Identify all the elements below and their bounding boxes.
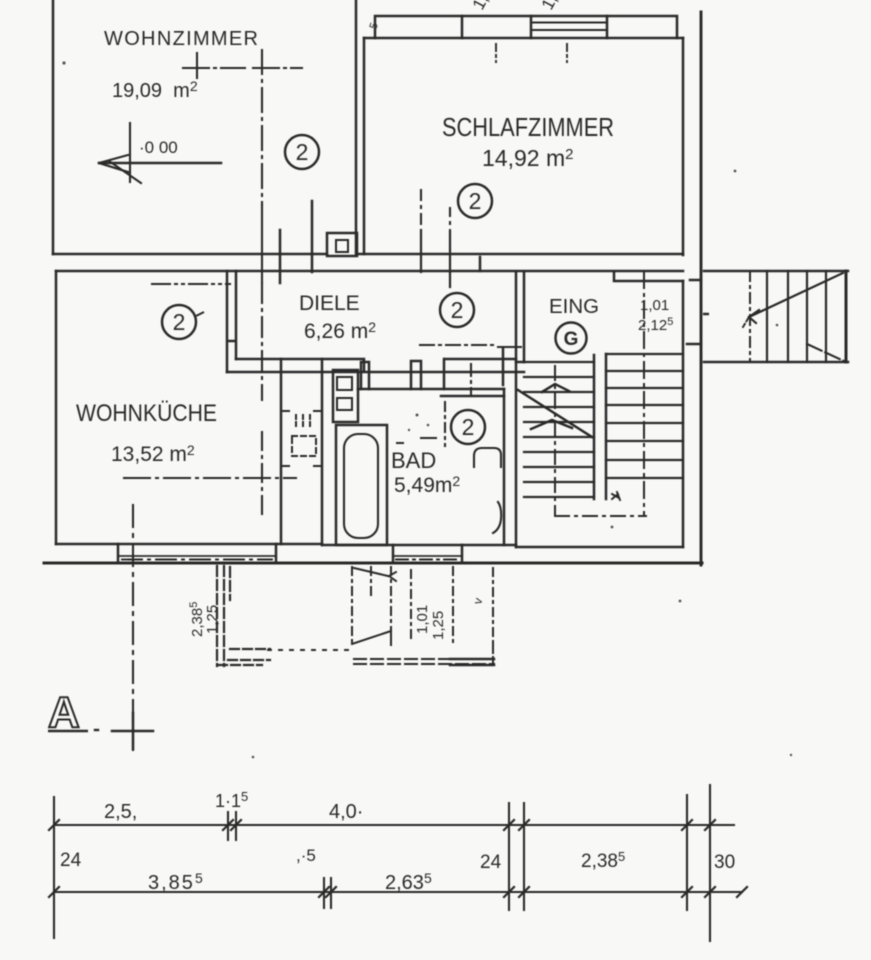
centerline kitchen window xyxy=(122,559,272,561)
wall: building outer right xyxy=(700,12,703,565)
entrance door threshold xyxy=(614,272,683,281)
wall: kitchen left outer xyxy=(55,271,58,544)
stair break line xyxy=(518,390,592,437)
svg-text:WOHNZIMMER: WOHNZIMMER xyxy=(104,28,258,50)
dimension extension verticals xyxy=(54,785,710,941)
balcony bottom right heavy xyxy=(450,659,494,665)
balcony bottom-left corner dashes xyxy=(218,649,270,665)
stair up-arrows xyxy=(542,384,569,392)
speckles xyxy=(62,61,792,758)
svg-text:30: 30 xyxy=(714,852,735,873)
stair landing dashed outline xyxy=(555,515,646,517)
svg-text:G: G xyxy=(564,329,579,350)
svg-text:BAD: BAD xyxy=(391,448,436,473)
wall: bedroom top xyxy=(364,37,683,40)
dimension line lower xyxy=(54,891,742,893)
kitchen sink dashed xyxy=(296,415,310,428)
svg-text:2: 2 xyxy=(451,297,464,323)
svg-text:13,52 m2: 13,52 m2 xyxy=(111,442,195,466)
svg-text:6,26 m2: 6,26 m2 xyxy=(304,319,376,343)
landing mark xyxy=(612,492,620,500)
svg-text:2: 2 xyxy=(173,309,186,335)
wall: kitchen right / fixture strip xyxy=(281,359,322,545)
external stair top right: outline xyxy=(704,271,848,362)
bath window jambs xyxy=(393,545,462,563)
wall: bottom inner faces xyxy=(56,544,683,547)
mark near external stair xyxy=(703,313,709,316)
svg-text:1,25: 1,25 xyxy=(430,611,447,640)
centerline under top windows xyxy=(496,44,567,62)
svg-text:,·5: ,·5 xyxy=(296,846,316,865)
centerline bath window xyxy=(393,555,462,557)
centerline bath x471 xyxy=(470,364,472,396)
fixture strip shelf ticks xyxy=(281,411,322,466)
centerline short below kitchen top wall xyxy=(152,283,230,285)
svg-text:DIELE: DIELE xyxy=(299,292,360,315)
dimension slash ticks upper line xyxy=(49,820,747,897)
door jambs hall-bath xyxy=(444,348,503,389)
centerline bedroom door x421 xyxy=(420,190,422,230)
wall tick at entrance wall xyxy=(516,362,524,372)
svg-text:·0 00: ·0 00 xyxy=(139,138,178,157)
svg-text:EING: EING xyxy=(549,296,599,318)
pilaster xyxy=(361,362,369,389)
svg-text:1,01: 1,01 xyxy=(640,297,669,314)
section line A cross xyxy=(112,713,153,749)
balcony stair dashed verticals xyxy=(352,567,493,645)
stair left flight treads xyxy=(524,362,594,497)
dimension slash ticks lower line xyxy=(49,887,747,897)
balcony bottom dashed double xyxy=(354,659,494,664)
wall: bedroom left xyxy=(363,38,366,254)
wall: living room left outer xyxy=(52,0,55,254)
wall: hall (Diele) left xyxy=(227,271,236,372)
bath nook with rounded corner xyxy=(441,395,504,398)
position circle 2 bath xyxy=(451,410,485,444)
svg-text:14,92 m2: 14,92 m2 xyxy=(482,145,573,171)
wall: hall bottom faces xyxy=(227,359,516,372)
svg-text:2: 2 xyxy=(469,188,482,214)
wall: bath top xyxy=(358,388,504,391)
wall: bedroom right inner xyxy=(682,38,685,547)
centerline cross living room xyxy=(196,53,198,78)
window sill lines top strip xyxy=(531,23,607,31)
position circle 2 bedroom xyxy=(458,184,492,218)
stair newel walls xyxy=(594,354,606,499)
dimension line upper xyxy=(54,824,734,826)
svg-text:2: 2 xyxy=(296,139,309,165)
door jambs Schlafzimmer-Diele xyxy=(479,257,482,271)
balcony diagonals xyxy=(354,568,388,576)
external stair arrow xyxy=(749,273,843,317)
svg-text:2: 2 xyxy=(462,414,475,440)
door jamb WZ-Diele xyxy=(280,201,312,283)
wall: band bottom face (kitchen/hall top) xyxy=(56,270,683,273)
centerline vertical through living room x262 xyxy=(261,50,263,205)
centerline x450 bedroom-hall xyxy=(449,208,451,232)
svg-text:24: 24 xyxy=(480,852,502,873)
centerline horizontal kitchen xyxy=(124,477,296,479)
dimension double-tick small verticals xyxy=(228,812,331,908)
kitchen window jambs and sill xyxy=(118,544,276,563)
bathtub outer xyxy=(336,425,387,545)
svg-text:1,01: 1,01 xyxy=(414,605,431,634)
svg-text:A: A xyxy=(48,688,80,737)
wall: band between upper rooms and hall, top face xyxy=(53,253,683,256)
bathtub inner xyxy=(344,434,378,538)
balcony left rail dashed pair xyxy=(217,566,230,666)
svg-text:2,5,: 2,5, xyxy=(104,801,137,823)
wall: living room right xyxy=(355,0,358,254)
wall: top balcony strip xyxy=(375,16,677,38)
wall ticks right side xyxy=(687,280,701,344)
position circle 2 living room xyxy=(162,135,587,444)
stair right flight treads xyxy=(606,354,683,478)
stair centerlines xyxy=(643,272,645,516)
centerline horizontal hall y345 xyxy=(420,344,498,346)
toilet edge xyxy=(493,502,501,533)
wall: entrance hall left xyxy=(516,272,524,547)
chimney block bath xyxy=(333,370,358,422)
external stair treads xyxy=(767,271,826,362)
level mark arrow living room xyxy=(129,123,131,182)
svg-text:4,0·: 4,0· xyxy=(329,801,363,823)
flue stack notch xyxy=(411,361,421,389)
window mullions top strip xyxy=(462,16,607,38)
svg-text:24: 24 xyxy=(60,850,82,871)
svg-text:5,49m2: 5,49m2 xyxy=(394,473,460,497)
position circle 2 hall xyxy=(440,293,474,327)
svg-text:SCHLAFZIMMER: SCHLAFZIMMER xyxy=(442,112,614,142)
position circle 2 kitchen xyxy=(162,305,196,339)
underline below A xyxy=(48,61,792,758)
washbasin bath xyxy=(474,448,501,467)
section line A vertical x133 xyxy=(132,505,134,750)
position circle G entrance xyxy=(556,323,587,354)
svg-text:1,25: 1,25 xyxy=(204,605,221,634)
wall: building outer bottom xyxy=(44,562,702,565)
chimney block living room xyxy=(327,233,357,256)
svg-text:19,09 m2: 19,09 m2 xyxy=(112,78,198,102)
wall: bath right xyxy=(503,389,506,545)
svg-text:WOHNKÜCHE: WOHNKÜCHE xyxy=(76,400,217,427)
dashes above BAD label xyxy=(396,438,437,443)
